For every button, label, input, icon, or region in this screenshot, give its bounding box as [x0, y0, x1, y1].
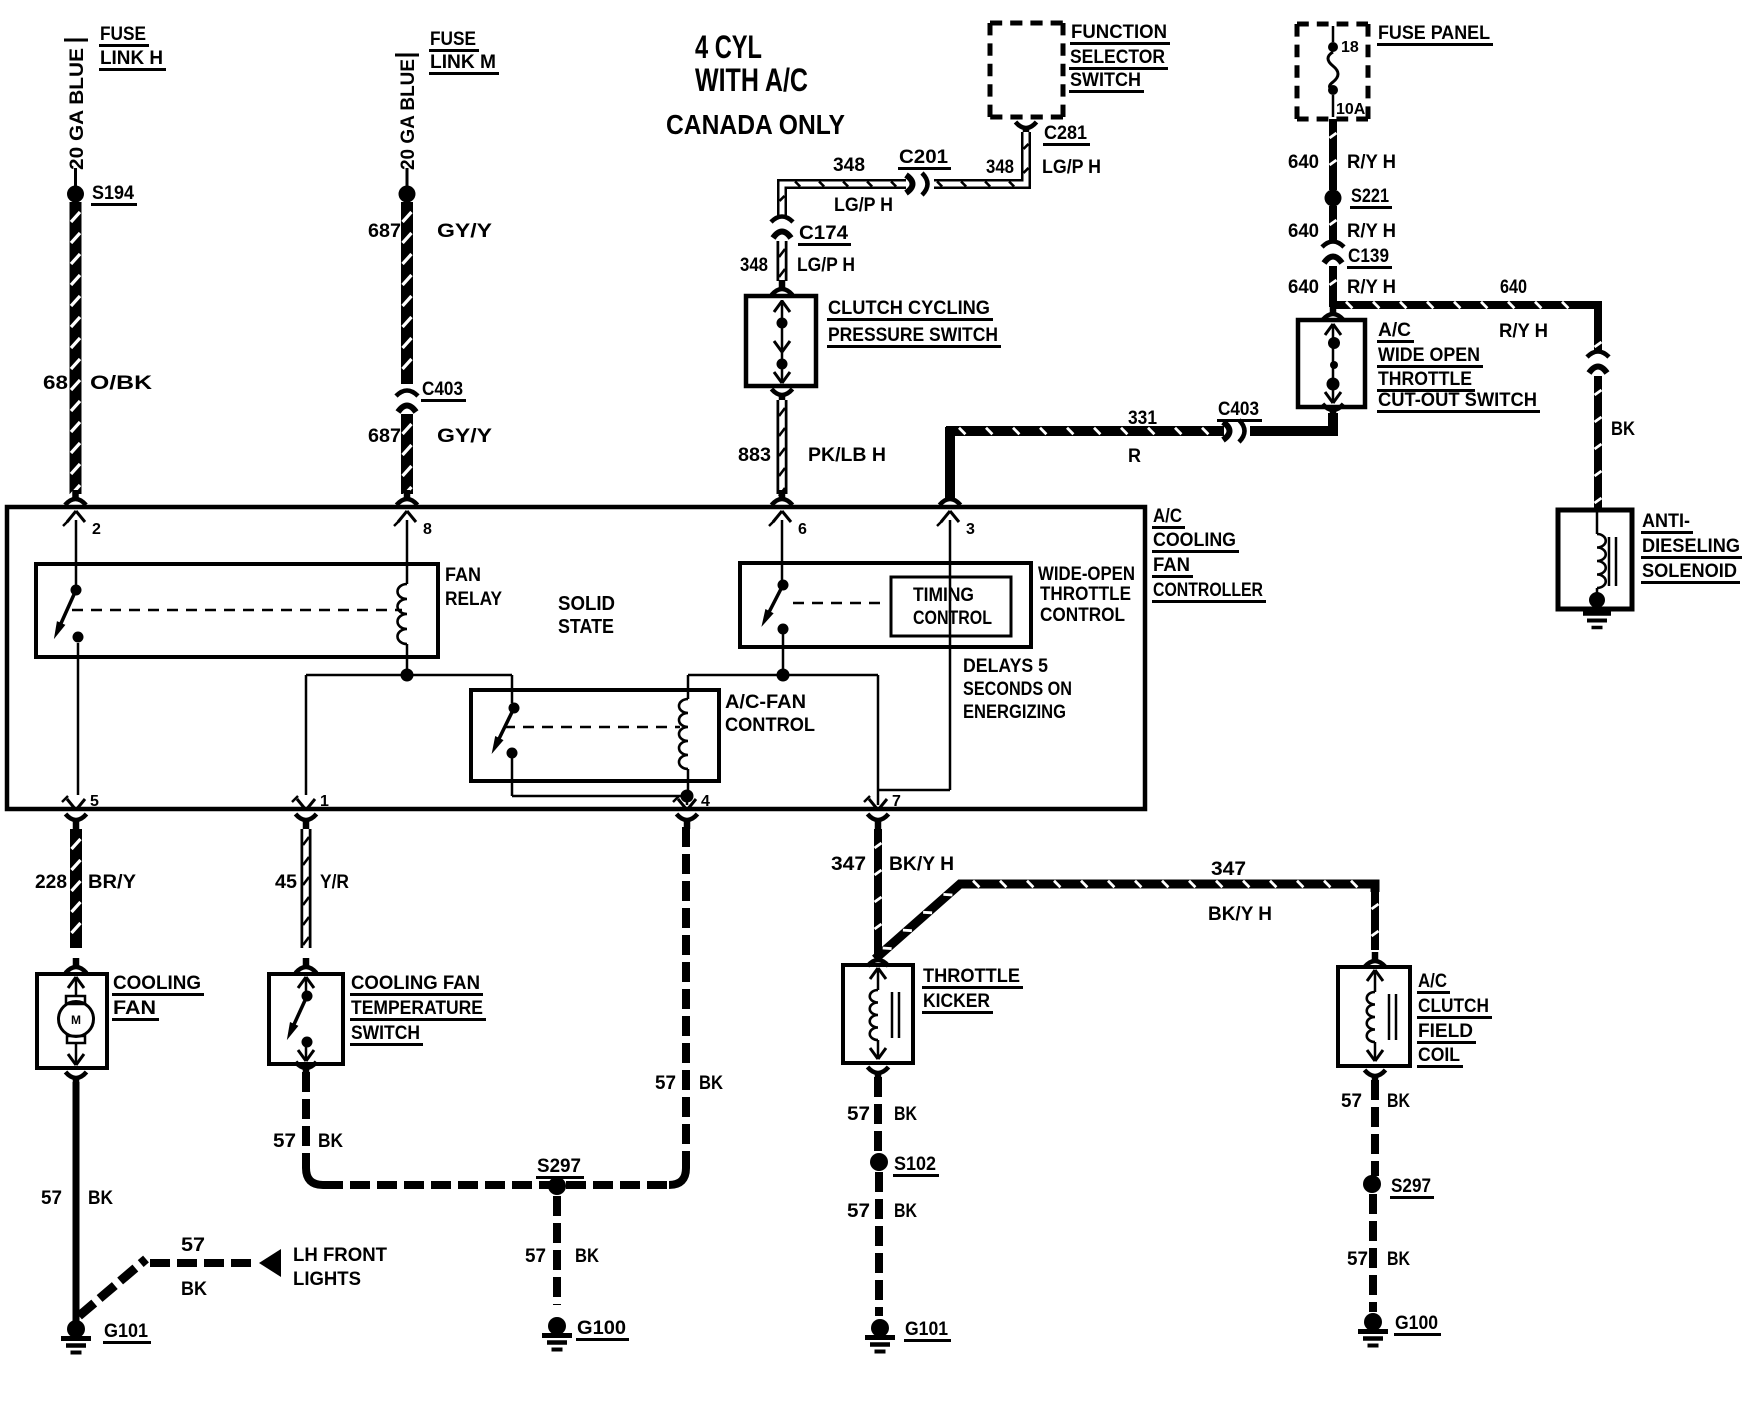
- label A/C WOT cut-out switch: [1377, 320, 1540, 412]
- svg-text:RELAY: RELAY: [445, 589, 502, 610]
- svg-text:BK: BK: [894, 1104, 917, 1125]
- A/C-fan dashed link: [504, 726, 680, 729]
- svg-text:10A: 10A: [1336, 101, 1366, 118]
- svg-text:687: 687: [368, 221, 401, 242]
- WOT control switch: [761, 580, 788, 635]
- A/C clutch field coil box: [1338, 967, 1410, 1066]
- clutch cycling pressure switch symbol: [774, 300, 790, 383]
- svg-text:18: 18: [1341, 39, 1359, 56]
- title CANADA ONLY: [666, 109, 845, 140]
- label 347 BK/Y H horizontal: [1208, 859, 1272, 925]
- svg-text:PK/LB H: PK/LB H: [808, 445, 886, 466]
- svg-text:348: 348: [986, 157, 1014, 178]
- svg-text:STATE: STATE: [558, 616, 614, 638]
- svg-text:5: 5: [90, 793, 99, 810]
- label COOLING FAN: [112, 973, 204, 1020]
- function selector switch box: [990, 23, 1063, 117]
- wire 348 from C281: [908, 132, 1029, 187]
- svg-text:CONTROL: CONTROL: [913, 608, 992, 629]
- svg-text:BK: BK: [88, 1188, 113, 1209]
- fuse panel box: [1297, 24, 1368, 119]
- label G101 right: [904, 1319, 951, 1341]
- svg-text:S194: S194: [92, 183, 134, 204]
- wire 57 BK cooling fan: [73, 1082, 80, 1324]
- svg-text:3: 3: [966, 521, 975, 538]
- label 348 left of C201: [833, 155, 865, 176]
- connector C201: [906, 173, 934, 195]
- svg-text:LH FRONT: LH FRONT: [293, 1245, 387, 1266]
- wire 57 BK S297 to G100: [553, 1196, 561, 1305]
- wire 57 BK S297r to G100: [1369, 1194, 1377, 1312]
- wire 687 GY/Y upper: [403, 202, 412, 384]
- svg-text:SWITCH: SWITCH: [1070, 70, 1141, 91]
- svg-text:FAN: FAN: [1153, 555, 1190, 576]
- svg-text:GY/Y: GY/Y: [437, 221, 492, 242]
- cooling fan temperature switch box: [269, 974, 343, 1064]
- svg-text:THROTTLE: THROTTLE: [1040, 584, 1131, 605]
- svg-text:640: 640: [1288, 277, 1319, 298]
- wire 331 R: [940, 404, 1344, 505]
- label LG/P H below: [834, 195, 893, 216]
- A/C WOT cut-out switch symbol: [1325, 324, 1341, 403]
- label DELAYS 5 SECONDS ON ENERGIZING: [963, 656, 1072, 723]
- wire pin2 to fan relay switch: [75, 520, 78, 585]
- svg-text:COOLING FAN: COOLING FAN: [351, 973, 480, 994]
- wire 348 to clutch switch: [779, 241, 785, 281]
- A/C-fan control switch: [492, 703, 520, 759]
- splice S194: [67, 168, 84, 203]
- label anti-dieseling solenoid: [1641, 511, 1742, 583]
- arrow LH front lights: [259, 1249, 281, 1277]
- fuse symbol: [1328, 26, 1338, 117]
- svg-text:TIMING: TIMING: [913, 585, 974, 606]
- label C403 on 331: [1217, 399, 1262, 421]
- svg-text:57: 57: [847, 1104, 870, 1125]
- svg-text:640: 640: [1288, 221, 1319, 242]
- svg-text:CUT-OUT SWITCH: CUT-OUT SWITCH: [1378, 390, 1537, 411]
- svg-text:57: 57: [41, 1188, 62, 1209]
- svg-text:57: 57: [847, 1201, 870, 1222]
- svg-text:FUSE: FUSE: [100, 24, 146, 45]
- svg-text:C201: C201: [899, 147, 948, 168]
- label A/C CLUTCH FIELD COIL: [1417, 971, 1492, 1067]
- junction dot WOT: [777, 669, 790, 682]
- svg-text:687: 687: [368, 426, 401, 447]
- svg-text:R/Y H: R/Y H: [1347, 152, 1396, 173]
- svg-text:COOLING: COOLING: [1153, 530, 1236, 551]
- svg-text:S102: S102: [894, 1154, 936, 1175]
- pin 3: [937, 511, 975, 538]
- connector C139: [1322, 242, 1344, 264]
- connector at pin 2: [65, 490, 86, 505]
- label R/Y H horizontal: [1499, 321, 1548, 342]
- wire 57 BK to LH front lights: [79, 1259, 257, 1316]
- label 68 O/BK: [43, 373, 152, 394]
- label 57 BK (pin4): [655, 1073, 723, 1094]
- svg-text:COOLING: COOLING: [113, 973, 201, 994]
- svg-text:SOLID: SOLID: [558, 593, 615, 615]
- label C281: [1043, 123, 1090, 145]
- wire 347 branch diagonal and horizontal: [875, 881, 1371, 959]
- wire 57 BK S102 to G101: [875, 1172, 883, 1316]
- label TIMING CONTROL: [913, 585, 992, 629]
- svg-text:R/Y H: R/Y H: [1499, 321, 1548, 342]
- svg-text:G100: G100: [577, 1318, 626, 1339]
- pin 1: [292, 793, 329, 810]
- svg-text:LINK M: LINK M: [430, 52, 496, 73]
- fan relay dashed link: [72, 609, 402, 612]
- pin 4: [673, 793, 710, 810]
- svg-text:FUSE PANEL: FUSE PANEL: [1378, 23, 1490, 44]
- anti-dieseling solenoid box: [1558, 510, 1632, 609]
- connector at temp switch top: [296, 958, 317, 973]
- connector C174: [771, 217, 793, 239]
- svg-text:THROTTLE: THROTTLE: [923, 966, 1020, 987]
- wire BK: [1595, 376, 1602, 508]
- connector C281: [1016, 122, 1037, 137]
- wire 687 GY/Y lower: [403, 414, 412, 497]
- wire A/C-fan coil to pin 4: [681, 769, 694, 805]
- connector at cooling fan top: [66, 958, 87, 973]
- label 45 Y/R: [275, 872, 349, 893]
- svg-text:68: 68: [43, 373, 68, 394]
- label WIDE-OPEN THROTTLE CONTROL: [1038, 564, 1135, 626]
- label 687 GY/Y upper: [368, 221, 492, 242]
- label G101 left: [103, 1321, 151, 1343]
- svg-text:CONTROL: CONTROL: [1040, 605, 1125, 626]
- svg-text:FAN: FAN: [113, 998, 156, 1019]
- svg-text:CLUTCH CYCLING: CLUTCH CYCLING: [828, 298, 990, 319]
- svg-text:4 CYL: 4 CYL: [695, 29, 762, 65]
- WOT dashed link: [793, 602, 888, 605]
- throttle kicker box: [843, 965, 913, 1063]
- svg-text:BK/Y H: BK/Y H: [1208, 904, 1272, 925]
- connector below throttle kicker: [868, 1067, 889, 1082]
- wire pin3 through timing control: [878, 520, 950, 790]
- svg-text:A/C: A/C: [1153, 506, 1182, 527]
- svg-text:CONTROLLER: CONTROLLER: [1153, 580, 1263, 601]
- wire 57 BK S297 to pin4 wire: [566, 1168, 686, 1185]
- wire 20 GA BLUE (fuse link M) rotated label: [395, 55, 419, 170]
- connector on BK wire: [1587, 352, 1609, 374]
- svg-text:DIESELING: DIESELING: [1642, 536, 1740, 557]
- svg-text:57: 57: [525, 1246, 546, 1267]
- svg-text:347: 347: [831, 854, 866, 875]
- anti-dieseling solenoid coil: [1597, 512, 1616, 598]
- svg-text:THROTTLE: THROTTLE: [1378, 369, 1472, 390]
- svg-text:SWITCH: SWITCH: [351, 1023, 420, 1044]
- svg-text:FIELD: FIELD: [1418, 1021, 1473, 1042]
- ground G101 right: [865, 1319, 895, 1352]
- svg-text:WIDE OPEN: WIDE OPEN: [1378, 345, 1480, 366]
- connector at pin 6: [772, 490, 793, 505]
- svg-text:BK: BK: [1611, 419, 1635, 440]
- connector below pin 5: [66, 814, 87, 829]
- svg-text:M: M: [71, 1013, 81, 1027]
- pin 2: [63, 511, 101, 538]
- svg-text:PRESSURE SWITCH: PRESSURE SWITCH: [828, 325, 998, 346]
- svg-text:CANADA ONLY: CANADA ONLY: [666, 109, 845, 140]
- svg-text:883: 883: [738, 445, 771, 466]
- svg-text:57: 57: [181, 1235, 205, 1256]
- timing control box: [891, 577, 1011, 636]
- label 640 R/Y H 1: [1288, 152, 1396, 173]
- svg-text:S297: S297: [537, 1156, 581, 1177]
- pin 6: [769, 511, 807, 538]
- svg-text:SELECTOR: SELECTOR: [1070, 47, 1165, 68]
- A/C WOT cut-out switch box: [1298, 320, 1365, 407]
- svg-text:1: 1: [320, 793, 329, 810]
- svg-text:FUSE: FUSE: [430, 29, 476, 50]
- svg-text:KICKER: KICKER: [923, 991, 990, 1012]
- connector at A/C clutch field coil: [1365, 952, 1386, 967]
- svg-text:7: 7: [892, 793, 901, 810]
- wire 640 R/Y H seg2: [1330, 206, 1337, 242]
- wire fan relay switch to pin 5: [77, 643, 80, 795]
- label S194: [91, 183, 137, 205]
- anti-dieseling ground: [1583, 592, 1611, 628]
- label 347 BK/Y H: [831, 854, 954, 875]
- svg-text:S297: S297: [1391, 1176, 1431, 1197]
- ground G100 right: [1358, 1313, 1388, 1346]
- A/C cooling fan controller box: [7, 507, 1145, 809]
- svg-text:640: 640: [1500, 277, 1527, 298]
- label 57 BK (S102 lower): [847, 1201, 917, 1222]
- label C403: [421, 379, 466, 401]
- svg-text:FUNCTION: FUNCTION: [1071, 22, 1167, 43]
- svg-text:348: 348: [740, 255, 768, 276]
- label 640 R/Y H 2: [1288, 221, 1396, 242]
- ground G100 left: [542, 1317, 572, 1350]
- svg-text:BK: BK: [181, 1279, 207, 1300]
- A/C-fan coil: [679, 699, 688, 769]
- svg-text:R/Y H: R/Y H: [1347, 221, 1396, 242]
- wire 228 BR/Y: [72, 829, 81, 948]
- svg-text:20 GA BLUE: 20 GA BLUE: [398, 59, 419, 170]
- wire WOT switch to junction: [782, 634, 785, 675]
- connector at throttle kicker: [868, 951, 889, 966]
- label FAN RELAY: [445, 565, 502, 610]
- svg-text:BK: BK: [699, 1073, 723, 1094]
- svg-text:G100: G100: [1395, 1313, 1438, 1334]
- junction dot below fan relay coil: [401, 669, 414, 682]
- wire pin8 to fan relay coil: [406, 520, 409, 584]
- splice dot fuse link M: [399, 168, 416, 203]
- label 348 lower: [740, 255, 768, 276]
- label clutch cycling pressure switch: [827, 298, 1001, 347]
- wire pin6 to WOT switch: [781, 520, 784, 580]
- svg-text:57: 57: [655, 1073, 676, 1094]
- connector below pressure switch: [772, 389, 793, 404]
- wire 57 BK pin 4 down: [677, 814, 698, 1168]
- svg-text:R: R: [1128, 446, 1141, 467]
- fan relay coil: [398, 584, 408, 644]
- label LG/P H right: [1042, 157, 1101, 178]
- label 57 BK (throttle kicker): [847, 1104, 917, 1125]
- wire 640 R/Y H seg1: [1330, 119, 1337, 190]
- label LH FRONT LIGHTS: [293, 1245, 387, 1290]
- svg-text:228: 228: [35, 872, 67, 893]
- svg-text:BK: BK: [1387, 1091, 1410, 1112]
- label S297 right: [1390, 1176, 1434, 1198]
- wire 57 BK A/C clutch: [1371, 1080, 1379, 1176]
- wire junction to pin 1: [306, 675, 407, 795]
- svg-text:WIDE-OPEN: WIDE-OPEN: [1038, 564, 1135, 585]
- svg-text:BR/Y: BR/Y: [88, 872, 136, 893]
- label cooling fan temperature switch: [350, 973, 486, 1045]
- WOT control box: [740, 563, 1031, 647]
- connector C403 (wire 687): [396, 391, 418, 413]
- fuse link H label: [99, 24, 166, 70]
- svg-text:57: 57: [273, 1131, 296, 1152]
- fan relay box: [36, 564, 438, 657]
- svg-text:45: 45: [275, 872, 297, 893]
- svg-text:4: 4: [701, 793, 710, 810]
- svg-text:CLUTCH: CLUTCH: [1418, 996, 1489, 1017]
- svg-text:BK: BK: [575, 1246, 599, 1267]
- wire 20 GA BLUE (fuse link H) rotated label: [64, 40, 88, 170]
- label S297 bottom: [536, 1156, 584, 1178]
- wire 57 BK throttle kicker: [874, 1077, 882, 1152]
- arrow into WOT switch: [1323, 305, 1344, 320]
- label FUSE PANEL: [1377, 23, 1493, 45]
- svg-text:GY/Y: GY/Y: [437, 426, 492, 447]
- svg-text:BK: BK: [894, 1201, 917, 1222]
- svg-text:WITH A/C: WITH A/C: [695, 62, 808, 98]
- label THROTTLE KICKER: [922, 966, 1023, 1013]
- splice S297 (bottom): [548, 1177, 566, 1195]
- label 57 BK (A/C clutch): [1341, 1091, 1410, 1112]
- wire 640 R/Y H seg3: [1330, 266, 1337, 307]
- label C139: [1347, 246, 1392, 268]
- label fuse 18: [1341, 39, 1359, 56]
- wire 347 BK/Y H: [875, 829, 882, 958]
- label S221: [1350, 186, 1392, 208]
- cooling fan motor: [59, 977, 94, 1065]
- label 640 horizontal: [1500, 277, 1527, 298]
- svg-text:348: 348: [833, 155, 865, 176]
- svg-text:O/BK: O/BK: [90, 373, 152, 394]
- svg-text:DELAYS 5: DELAYS 5: [963, 656, 1048, 677]
- svg-text:BK: BK: [1387, 1249, 1410, 1270]
- label R: [1128, 446, 1141, 467]
- A/C-fan control box: [471, 690, 719, 781]
- svg-text:331: 331: [1128, 408, 1157, 429]
- wire 348 horizontal: [780, 182, 933, 219]
- wire fan relay coil to junction: [406, 644, 409, 675]
- connector below A/C clutch field coil: [1365, 1070, 1386, 1085]
- label 640 R/Y H 3: [1288, 277, 1396, 298]
- connector below pin 1: [296, 814, 317, 829]
- svg-text:C139: C139: [1348, 246, 1389, 267]
- cooling fan temperature switch symbol: [287, 977, 314, 1061]
- label G100 left: [576, 1318, 629, 1340]
- svg-text:TEMPERATURE: TEMPERATURE: [351, 998, 483, 1019]
- svg-text:LG/P H: LG/P H: [797, 255, 855, 276]
- label 348 right of C201: [986, 157, 1014, 178]
- pin 8: [394, 511, 432, 538]
- label 57 BK (cooling fan): [41, 1188, 113, 1209]
- label G100 right: [1394, 1313, 1441, 1335]
- svg-text:57: 57: [1347, 1249, 1368, 1270]
- svg-text:LINK H: LINK H: [100, 48, 163, 69]
- connector below pin 7: [868, 814, 889, 829]
- svg-text:C403: C403: [422, 379, 463, 400]
- svg-text:6: 6: [798, 521, 807, 538]
- svg-text:G101: G101: [905, 1319, 948, 1340]
- connector C403 (wire 331): [1223, 420, 1245, 442]
- svg-text:R/Y H: R/Y H: [1347, 277, 1396, 298]
- label SOLID STATE: [558, 593, 615, 638]
- svg-text:ANTI-: ANTI-: [1642, 511, 1690, 532]
- wire 883 PK/LB H: [779, 400, 785, 496]
- svg-text:C403: C403: [1218, 399, 1259, 420]
- title 4 CYL WITH A/C: [695, 29, 808, 98]
- label A/C-FAN CONTROL: [725, 692, 815, 736]
- svg-text:57: 57: [1341, 1091, 1362, 1112]
- svg-text:S221: S221: [1351, 186, 1389, 207]
- ground G101 left: [61, 1320, 91, 1353]
- function selector switch label: [1069, 22, 1170, 92]
- svg-text:FAN: FAN: [445, 565, 481, 586]
- label A/C cooling fan controller: [1152, 506, 1266, 602]
- svg-text:20 GA BLUE: 20 GA BLUE: [67, 48, 88, 170]
- label 57 BK lights: [181, 1235, 207, 1300]
- label 57 BK (S297 right lower): [1347, 1249, 1410, 1270]
- wire 347 corner down: [1368, 884, 1379, 950]
- wire 640 horizontal: [1333, 302, 1598, 330]
- svg-text:C174: C174: [799, 223, 848, 244]
- cooling fan box: [37, 974, 107, 1068]
- connector below cooling fan: [66, 1072, 87, 1087]
- wire 68 O/BK (fuse link H): [71, 202, 80, 495]
- svg-text:2: 2: [92, 521, 101, 538]
- svg-text:8: 8: [423, 521, 432, 538]
- splice S297 (right): [1363, 1175, 1381, 1193]
- svg-text:C281: C281: [1044, 123, 1087, 144]
- wire 45 Y/R: [303, 829, 309, 948]
- svg-text:CONTROL: CONTROL: [725, 715, 815, 736]
- fuse link M label: [429, 29, 499, 74]
- splice S221: [1325, 190, 1342, 207]
- wire 640 BK right: [1595, 328, 1602, 352]
- label BK: [1611, 419, 1635, 440]
- svg-text:LG/P H: LG/P H: [1042, 157, 1101, 178]
- svg-text:640: 640: [1288, 152, 1319, 173]
- svg-text:BK: BK: [318, 1131, 343, 1152]
- svg-text:A/C-FAN: A/C-FAN: [725, 692, 806, 713]
- wire junction to A/C-fan switch: [407, 675, 512, 703]
- connector below temp switch: [296, 1062, 317, 1077]
- svg-text:347: 347: [1211, 859, 1246, 880]
- splice S102: [870, 1153, 888, 1171]
- pin 7: [864, 793, 901, 810]
- svg-text:SOLENOID: SOLENOID: [1642, 561, 1737, 582]
- svg-text:LG/P H: LG/P H: [834, 195, 893, 216]
- svg-text:A/C: A/C: [1418, 971, 1447, 992]
- svg-text:COIL: COIL: [1418, 1045, 1460, 1066]
- wire 57 BK from temp switch: [306, 1072, 551, 1185]
- wire junction to pin 7: [783, 675, 878, 805]
- label 883 PK/LB H: [738, 445, 886, 466]
- svg-text:A/C: A/C: [1378, 320, 1411, 341]
- A/C clutch field coil symbol: [1367, 970, 1396, 1061]
- svg-text:G101: G101: [104, 1321, 148, 1342]
- svg-text:ENERGIZING: ENERGIZING: [963, 702, 1066, 723]
- label 228 BR/Y: [35, 872, 136, 893]
- label 57 BK (G100): [525, 1246, 599, 1267]
- connector at clutch cycling switch: [772, 280, 793, 295]
